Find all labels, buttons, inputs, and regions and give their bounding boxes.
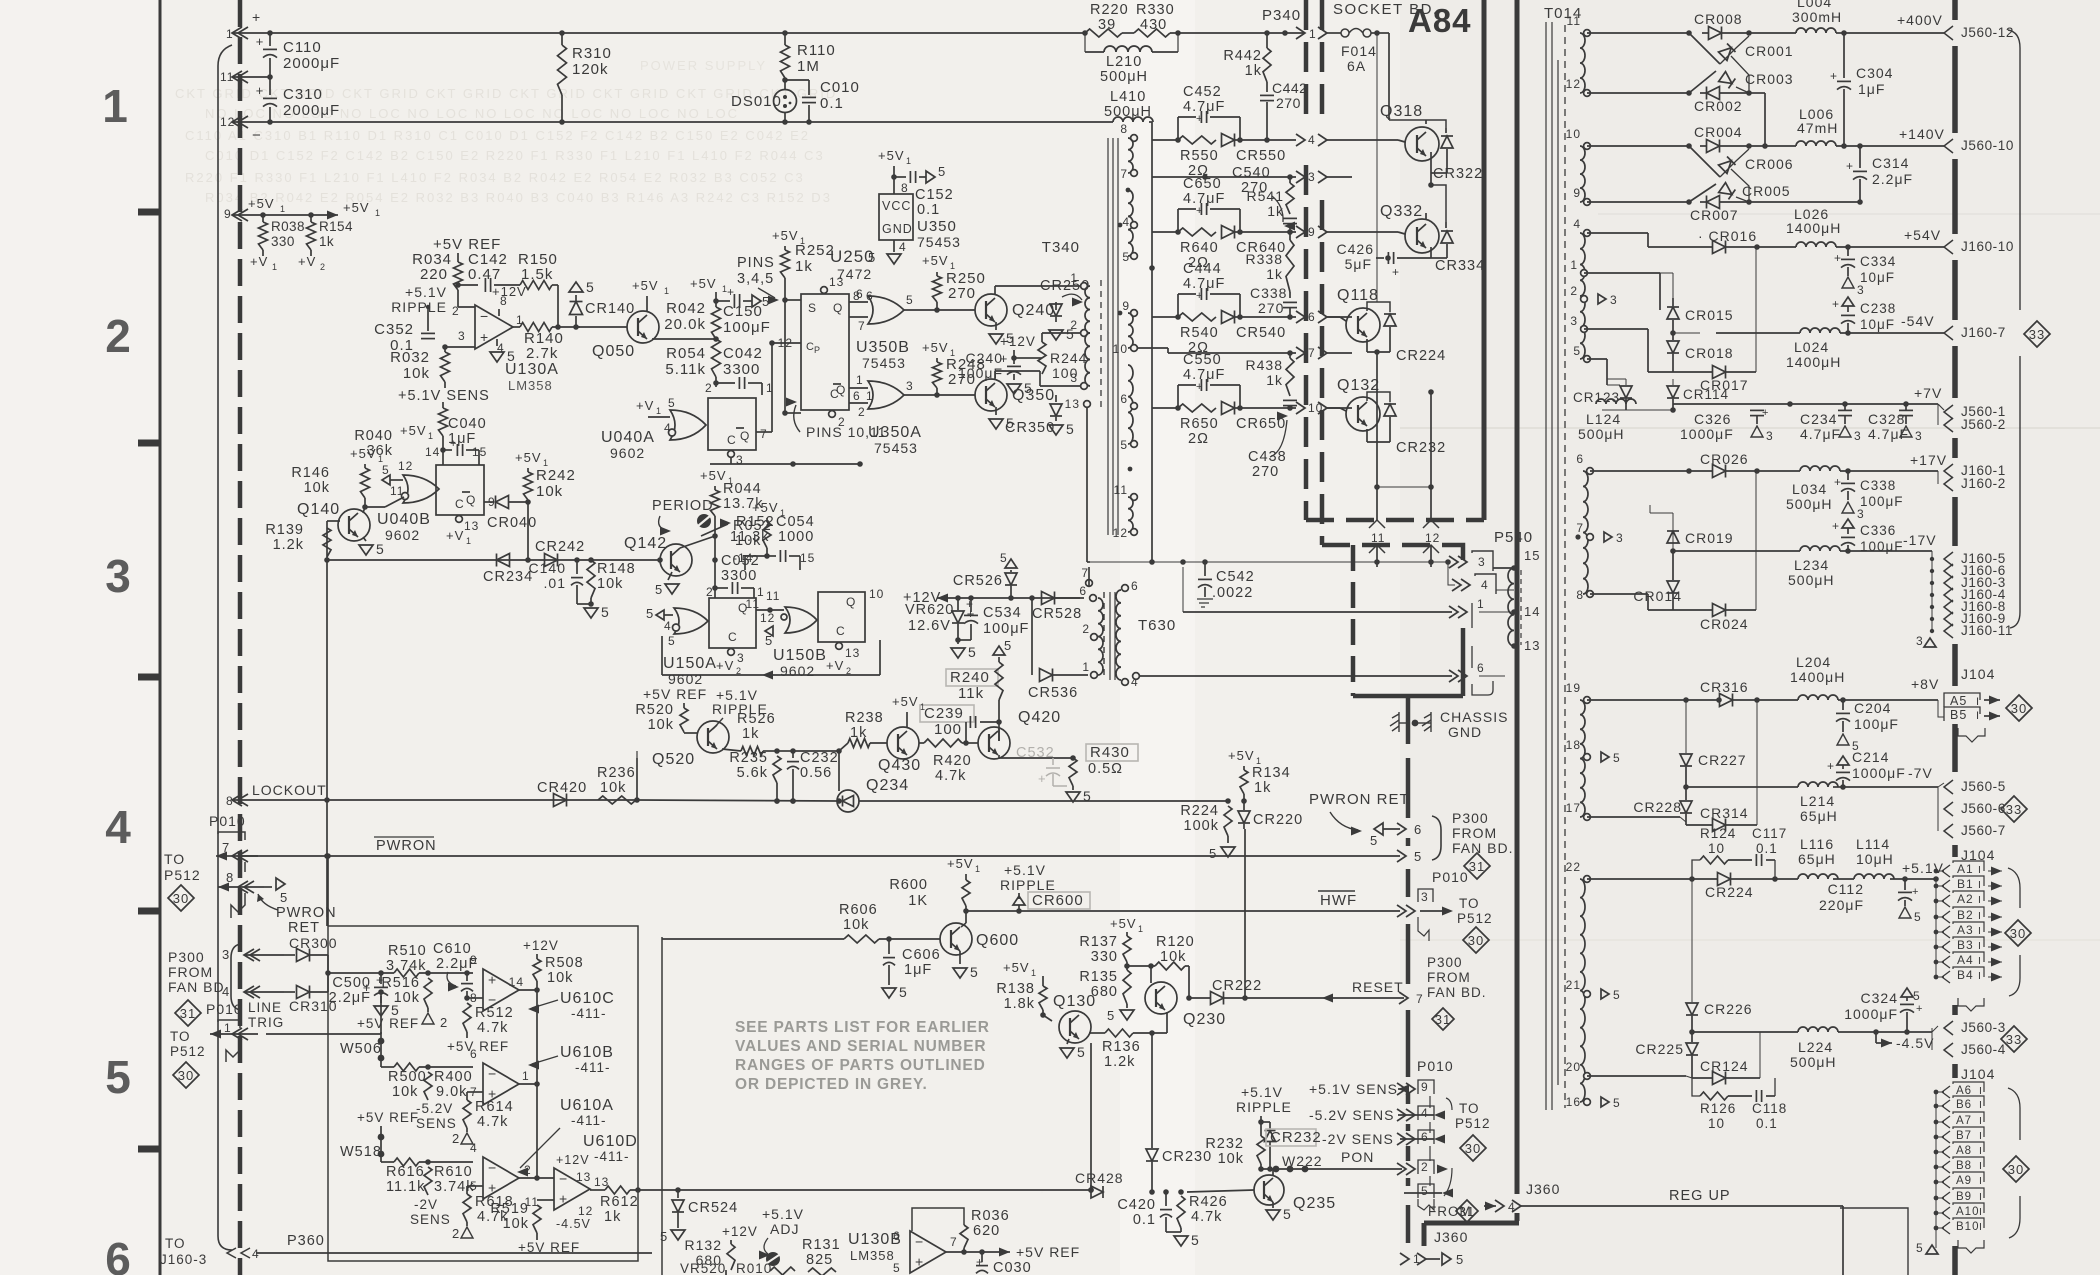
svg-text:4: 4 xyxy=(1421,1106,1429,1120)
connector J160-7 xyxy=(1944,326,1953,340)
svg-text:1k: 1k xyxy=(1245,63,1262,79)
heavy dashed bus vertical pair xyxy=(1304,0,1309,120)
svg-text:J360: J360 xyxy=(1434,1229,1468,1245)
rectifier row -4.5V xyxy=(1692,1031,1798,1033)
svg-text:15: 15 xyxy=(1524,548,1540,563)
svg-text:I: I xyxy=(1978,879,1982,891)
heavy dashed bus right x1955 xyxy=(1952,0,1958,20)
svg-text:C314: C314 xyxy=(1872,155,1909,171)
svg-text:T340: T340 xyxy=(1042,239,1080,256)
svg-text:A7: A7 xyxy=(1956,1115,1972,1127)
svg-text:C338: C338 xyxy=(1250,285,1287,301)
svg-text:ADJ: ADJ xyxy=(770,1221,799,1237)
svg-text:1400μH: 1400μH xyxy=(1790,669,1845,685)
resistor R042 20.0k xyxy=(712,307,721,339)
vertical CR220 to RESET xyxy=(1244,829,1246,998)
diode CR428 xyxy=(1091,1186,1103,1198)
svg-text:+V: +V xyxy=(716,658,734,673)
svg-text:5: 5 xyxy=(1107,1008,1115,1023)
svg-text:C117: C117 xyxy=(1752,826,1787,841)
svg-text:C540: C540 xyxy=(1232,165,1271,181)
svg-text:I: I xyxy=(1979,1160,1983,1172)
T340 secondary left xyxy=(1081,283,1088,290)
svg-text:4: 4 xyxy=(252,1247,260,1261)
connector J160-5 group xyxy=(1944,552,1953,566)
svg-text:-411-: -411- xyxy=(571,1113,607,1128)
svg-text:30: 30 xyxy=(1465,1141,1481,1156)
svg-text:12: 12 xyxy=(1425,531,1440,545)
svg-text:RET: RET xyxy=(288,920,320,936)
svg-text:+V: +V xyxy=(250,254,268,269)
svg-text:10k: 10k xyxy=(392,1084,418,1100)
svg-text:I: I xyxy=(1979,1145,1983,1157)
svg-text:5: 5 xyxy=(382,463,390,477)
svg-text:500μH: 500μH xyxy=(1578,426,1625,442)
svg-text:+5V: +5V xyxy=(772,228,799,243)
diode column CR015 CR018 CR017 xyxy=(1584,272,1660,274)
svg-text:4: 4 xyxy=(1481,578,1489,592)
svg-text:CR242: CR242 xyxy=(535,539,585,555)
svg-text:+V: +V xyxy=(826,658,844,673)
svg-text:14: 14 xyxy=(509,975,524,989)
transistor Q420 xyxy=(978,727,1010,759)
svg-text:C: C xyxy=(455,497,465,511)
svg-text:6: 6 xyxy=(1421,1130,1429,1144)
svg-text:10μF: 10μF xyxy=(1860,270,1895,285)
diode CR242 xyxy=(545,554,558,567)
svg-text:CR540: CR540 xyxy=(1236,325,1286,341)
svg-text:C334: C334 xyxy=(1860,254,1896,269)
svg-text:CR316: CR316 xyxy=(1700,679,1749,695)
svg-text:2000μF: 2000μF xyxy=(283,102,340,119)
diamond 30 J104 mid xyxy=(2005,920,2031,946)
svg-text:+V: +V xyxy=(446,528,464,543)
svg-text:R600: R600 xyxy=(889,877,928,893)
diode CR224 output xyxy=(1718,873,1731,886)
wire REG UP xyxy=(1521,1205,1843,1207)
svg-text:14: 14 xyxy=(425,445,440,459)
svg-text:13: 13 xyxy=(576,1170,591,1184)
svg-text:RIPPLE: RIPPLE xyxy=(1000,877,1056,893)
svg-text:2.2μF: 2.2μF xyxy=(329,990,371,1006)
svg-text:P512: P512 xyxy=(1457,911,1493,926)
svg-text:C110 A1 C310 B1 R110 D1 R31: C110 A1 C310 B1 R110 D1 R310 C1 C010 D1 … xyxy=(185,128,810,143)
svg-text:5: 5 xyxy=(893,1261,901,1275)
svg-text:R244: R244 xyxy=(1050,350,1087,366)
svg-text:CR300: CR300 xyxy=(289,935,338,951)
svg-text:LM358: LM358 xyxy=(850,1248,895,1263)
svg-text:4: 4 xyxy=(1308,133,1316,147)
wire U610A out to U610D xyxy=(537,1177,554,1179)
svg-text:R038: R038 xyxy=(271,219,305,234)
wire U040A out xyxy=(756,431,772,433)
svg-text:1k: 1k xyxy=(742,726,759,742)
svg-text:6A: 6A xyxy=(1347,58,1366,74)
svg-text:J560-6: J560-6 xyxy=(1961,801,2006,816)
svg-text:22: 22 xyxy=(1566,860,1581,874)
svg-text:CR004: CR004 xyxy=(1694,124,1743,140)
svg-text:FAN BD: FAN BD xyxy=(168,979,225,995)
resistor R135 680 xyxy=(1123,970,1131,1004)
svg-text:5: 5 xyxy=(1613,1096,1621,1110)
svg-text:17: 17 xyxy=(1566,801,1581,815)
svg-text:9602: 9602 xyxy=(668,671,703,687)
svg-text:C420: C420 xyxy=(1117,1197,1156,1213)
svg-text:1k: 1k xyxy=(1266,266,1283,282)
svg-text:330: 330 xyxy=(271,234,295,249)
svg-text:R146: R146 xyxy=(291,465,330,481)
svg-text:5: 5 xyxy=(1122,250,1130,264)
svg-text:Q142: Q142 xyxy=(624,535,667,552)
svg-text:DS010: DS010 xyxy=(731,93,782,110)
svg-text:J560-3: J560-3 xyxy=(1961,1020,2006,1035)
svg-text:CR334: CR334 xyxy=(1435,258,1485,274)
svg-text:L124: L124 xyxy=(1586,411,1621,427)
svg-text:+7V: +7V xyxy=(1914,385,1942,401)
svg-text:1k: 1k xyxy=(1254,780,1271,796)
svg-text:FROM: FROM xyxy=(168,964,213,980)
svg-text:R042: R042 xyxy=(666,300,706,317)
svg-text:+5.1V: +5.1V xyxy=(1004,862,1046,878)
resistor R139 1.2k xyxy=(323,528,331,557)
connector J560-1 J560-2 xyxy=(1906,403,1938,405)
transistor Q050 xyxy=(627,311,659,343)
svg-text:+5V: +5V xyxy=(947,856,974,871)
T630 pin7 hook xyxy=(1088,567,1090,587)
wire Q420 emitter R430 xyxy=(998,755,1000,758)
svg-text:J560-12: J560-12 xyxy=(1961,25,2014,40)
svg-text:100: 100 xyxy=(934,721,962,738)
resistor R132 680 xyxy=(727,1244,735,1270)
svg-text:+5V: +5V xyxy=(690,276,717,291)
inductor L116 65uH xyxy=(1798,874,1838,879)
diode CR232 boxed xyxy=(1261,1121,1270,1123)
svg-text:A1: A1 xyxy=(1957,862,1974,876)
svg-text:C542: C542 xyxy=(1216,569,1255,585)
svg-text:1000: 1000 xyxy=(778,529,814,545)
svg-text:R220: R220 xyxy=(1090,2,1129,18)
svg-text:B7: B7 xyxy=(1956,1130,1972,1142)
cross diodes CR001 CR003 xyxy=(1689,33,1720,64)
svg-text:R154: R154 xyxy=(319,219,353,234)
svg-text:1: 1 xyxy=(906,156,912,166)
snubber row pin3 xyxy=(1152,176,1205,178)
svg-text:U040A: U040A xyxy=(601,429,655,446)
svg-text:5: 5 xyxy=(655,582,663,597)
svg-text:11k: 11k xyxy=(958,685,984,702)
svg-text:I: I xyxy=(1979,1191,1983,1203)
svg-text:C040: C040 xyxy=(448,416,487,432)
svg-text:3: 3 xyxy=(1308,170,1316,184)
svg-text:CR008: CR008 xyxy=(1694,11,1743,27)
svg-text:B2: B2 xyxy=(1957,908,1974,922)
svg-text:Q350: Q350 xyxy=(1012,387,1055,404)
winding between P540 pins xyxy=(1508,568,1514,646)
svg-text:3: 3 xyxy=(458,329,466,343)
capacitor C310 2000uF xyxy=(269,77,271,95)
svg-text:31: 31 xyxy=(1459,1204,1475,1219)
svg-text:A9: A9 xyxy=(1956,1175,1972,1187)
LINE TRIG link xyxy=(380,992,382,1034)
svg-text:R512: R512 xyxy=(475,1005,514,1021)
transistor Q430 xyxy=(887,727,919,759)
svg-text:5.11k: 5.11k xyxy=(665,361,706,378)
svg-text:5: 5 xyxy=(1191,1232,1200,1248)
svg-text:-4.5V: -4.5V xyxy=(1896,1035,1934,1051)
svg-text:B4: B4 xyxy=(1957,968,1974,982)
wire Q050 collector +5V1 xyxy=(646,296,648,311)
svg-text:LOCKOUT: LOCKOUT xyxy=(252,782,327,798)
svg-text:1: 1 xyxy=(516,313,524,327)
svg-text:30: 30 xyxy=(1468,933,1484,948)
svg-text:+5V REF: +5V REF xyxy=(643,686,707,702)
svg-text:CR314: CR314 xyxy=(1700,805,1749,821)
svg-text:20.0k: 20.0k xyxy=(664,316,706,333)
svg-text:7: 7 xyxy=(1308,346,1316,360)
diode CR524 xyxy=(677,1190,679,1198)
gate U350B xyxy=(868,296,904,324)
svg-text:11: 11 xyxy=(1567,14,1581,28)
paper crease lines xyxy=(1400,427,2100,429)
svg-text:3: 3 xyxy=(1610,293,1618,307)
svg-text:CR140: CR140 xyxy=(585,301,635,317)
svg-text:13: 13 xyxy=(829,275,844,289)
svg-text:13: 13 xyxy=(1065,397,1080,411)
capacitor C152 0.1 xyxy=(894,176,906,178)
P010 sense squiggle xyxy=(1418,1199,1434,1210)
svg-text:5: 5 xyxy=(868,250,876,265)
svg-text:S: S xyxy=(808,301,817,315)
svg-text:R232: R232 xyxy=(1205,1136,1244,1152)
P540 thick corner xyxy=(1452,545,1463,560)
svg-text:6: 6 xyxy=(470,1047,478,1061)
wire Q142 collector xyxy=(714,560,716,588)
svg-text:6: 6 xyxy=(1414,822,1422,837)
Q140 collector to gate xyxy=(363,507,365,513)
svg-text:10: 10 xyxy=(869,587,884,601)
resistor R400 9.0k xyxy=(424,1072,432,1100)
capacitor C334 10uF xyxy=(1845,244,1851,250)
svg-text:7: 7 xyxy=(950,1235,958,1249)
svg-text:Q235: Q235 xyxy=(1293,1195,1336,1212)
svg-text:5: 5 xyxy=(1077,1044,1086,1060)
svg-text:CR232: CR232 xyxy=(1396,440,1446,456)
svg-text:R500: R500 xyxy=(388,1069,427,1085)
svg-text:J560-5: J560-5 xyxy=(1961,779,2006,794)
svg-text:6: 6 xyxy=(856,287,864,301)
svg-text:4.7μF: 4.7μF xyxy=(1183,367,1225,383)
diode CR350 xyxy=(1055,395,1057,402)
svg-text:-17V: -17V xyxy=(1903,532,1937,548)
svg-text:3: 3 xyxy=(1854,429,1862,443)
row tick marks xyxy=(138,209,160,216)
svg-text:CR224: CR224 xyxy=(1396,348,1446,364)
svg-text:R550: R550 xyxy=(1180,148,1219,164)
bracket J104 mid xyxy=(2008,868,2020,908)
svg-text:P540: P540 xyxy=(1494,529,1533,546)
svg-text:R138: R138 xyxy=(996,981,1035,997)
svg-text:VR520: VR520 xyxy=(680,1261,726,1275)
inductor L210 500uH xyxy=(1084,33,1086,52)
resistor R610 3.74k xyxy=(424,1167,432,1195)
svg-text:14: 14 xyxy=(1524,604,1540,619)
svg-text:CR225: CR225 xyxy=(1635,1041,1684,1057)
heavy bus corner bottom xyxy=(1515,1213,1520,1221)
svg-text:CR006: CR006 xyxy=(1745,156,1794,172)
svg-text:C426: C426 xyxy=(1337,241,1374,257)
svg-text:CR228: CR228 xyxy=(1633,799,1682,815)
svg-text:L214: L214 xyxy=(1800,793,1835,809)
svg-text:C326: C326 xyxy=(1694,411,1731,427)
heavy dashed bus horizontals xyxy=(1306,518,1484,523)
svg-text:9602: 9602 xyxy=(610,445,645,461)
svg-text:+140V: +140V xyxy=(1899,126,1945,142)
svg-text:5: 5 xyxy=(1613,988,1621,1002)
diode CR310 xyxy=(297,986,310,999)
svg-text:10k: 10k xyxy=(503,1216,529,1232)
resistor R426 4.7k xyxy=(1178,1189,1184,1195)
resistor R519 10k xyxy=(537,1199,542,1201)
svg-text:U150B: U150B xyxy=(773,647,827,664)
svg-text:5: 5 xyxy=(1024,380,1033,396)
svg-text:CR234: CR234 xyxy=(483,569,533,585)
resistor R224 100k xyxy=(1224,806,1232,836)
svg-text:3: 3 xyxy=(1766,429,1774,443)
svg-text:3.74k: 3.74k xyxy=(386,958,426,974)
bracket top right xyxy=(2008,30,2020,310)
svg-text:5: 5 xyxy=(1414,849,1422,864)
svg-text:−: − xyxy=(488,1160,496,1176)
svg-text:5: 5 xyxy=(376,541,385,557)
svg-text:Q: Q xyxy=(466,493,476,507)
svg-text:5: 5 xyxy=(1456,1252,1464,1267)
svg-text:11: 11 xyxy=(766,589,780,603)
svg-text:10: 10 xyxy=(1708,841,1725,856)
svg-text:R132: R132 xyxy=(685,1237,722,1253)
resistor R616 11.1k xyxy=(381,1161,394,1163)
svg-text:P300: P300 xyxy=(1452,810,1489,826)
svg-text:C: C xyxy=(836,624,846,638)
svg-text:Q332: Q332 xyxy=(1380,203,1423,220)
svg-text:0.1: 0.1 xyxy=(1756,841,1778,856)
Q350 emitter gnd xyxy=(995,407,997,415)
rail verticals to bus chevrons xyxy=(1376,352,1378,520)
svg-text:5: 5 xyxy=(668,634,676,648)
svg-text:31: 31 xyxy=(180,1006,196,1021)
flip-flop U040B body xyxy=(436,465,484,515)
svg-text:47mH: 47mH xyxy=(1797,120,1838,136)
svg-text:R238: R238 xyxy=(845,710,884,726)
svg-text:R252: R252 xyxy=(795,242,835,259)
svg-text:5μF: 5μF xyxy=(1345,256,1372,272)
wire C052 to U150A xyxy=(714,588,716,598)
svg-text:1: 1 xyxy=(428,431,434,441)
diamond 30 J104 A5 xyxy=(2006,695,2032,721)
pot R052 10k arrow xyxy=(701,524,728,536)
svg-text:7: 7 xyxy=(1576,521,1584,535)
svg-text:4.7k: 4.7k xyxy=(477,1020,508,1036)
gate U150A xyxy=(674,608,708,634)
svg-text:1: 1 xyxy=(272,262,278,272)
svg-text:CR550: CR550 xyxy=(1236,148,1286,164)
connector J560-12 xyxy=(1844,32,1944,34)
resistor R235 5.6k xyxy=(773,756,781,783)
svg-text:+12V: +12V xyxy=(523,938,559,953)
svg-text:R510: R510 xyxy=(388,943,427,959)
svg-text:270: 270 xyxy=(948,285,976,302)
svg-text:825: 825 xyxy=(806,1252,833,1268)
svg-text:5.6k: 5.6k xyxy=(737,765,768,781)
svg-text:12: 12 xyxy=(398,459,413,473)
svg-text:9: 9 xyxy=(1421,1080,1429,1094)
svg-text:13: 13 xyxy=(845,646,860,660)
snubber row pin9 R640 CR640 C650 xyxy=(1152,231,1178,233)
svg-text:75453: 75453 xyxy=(874,440,918,456)
svg-text:-5.2V SENS: -5.2V SENS xyxy=(1309,1107,1394,1123)
svg-text:4.7μF: 4.7μF xyxy=(1183,276,1225,292)
svg-text:L224: L224 xyxy=(1798,1039,1833,1055)
svg-text:13: 13 xyxy=(464,519,479,533)
svg-text:R526: R526 xyxy=(737,711,776,727)
svg-text:620: 620 xyxy=(973,1223,1000,1239)
svg-text:1: 1 xyxy=(224,1021,232,1035)
svg-text:+5V: +5V xyxy=(922,340,949,355)
rectifier row 9 xyxy=(1587,201,1689,203)
svg-text:2: 2 xyxy=(1082,622,1090,636)
svg-text:1μF: 1μF xyxy=(904,962,932,978)
svg-text:C152: C152 xyxy=(915,187,954,203)
svg-text:CR015: CR015 xyxy=(1685,307,1734,323)
svg-text:R034 B2 R042 E2 R054 E2 R03: R034 B2 R042 E2 R054 E2 R032 B3 R040 B3 … xyxy=(205,190,832,205)
svg-text:RANGES OF PARTS OUTLINED: RANGES OF PARTS OUTLINED xyxy=(735,1057,986,1074)
svg-text:R338: R338 xyxy=(1246,251,1283,267)
svg-text:1.2k: 1.2k xyxy=(273,537,304,553)
wire PON xyxy=(1261,1168,1402,1170)
lamp DS010 xyxy=(784,78,786,90)
resistor R236 10k xyxy=(598,796,636,804)
svg-text:+5V REF: +5V REF xyxy=(357,1110,419,1125)
svg-text:12: 12 xyxy=(578,1204,593,1218)
svg-text:P010: P010 xyxy=(209,813,246,829)
svg-text:+: + xyxy=(1827,759,1835,773)
svg-text:W518: W518 xyxy=(340,1144,382,1160)
resistor R032 10k xyxy=(442,344,448,350)
wire R236 to Q234 and beyond xyxy=(637,800,837,801)
heavy solid bus verticals xyxy=(1482,0,1487,520)
svg-text:+5V: +5V xyxy=(892,694,919,709)
svg-text:10k: 10k xyxy=(547,970,573,986)
gate U350A xyxy=(868,381,904,409)
svg-text:33: 33 xyxy=(2029,327,2045,342)
svg-text:C452: C452 xyxy=(1183,84,1222,100)
svg-text:C328: C328 xyxy=(1868,411,1905,427)
svg-text:3: 3 xyxy=(105,550,131,602)
svg-text:VR620: VR620 xyxy=(905,602,954,618)
ground pin4 U130A xyxy=(490,352,504,362)
svg-text:W506: W506 xyxy=(340,1041,382,1057)
svg-text:3: 3 xyxy=(222,947,230,962)
svg-text:1: 1 xyxy=(1138,924,1144,934)
svg-text:4: 4 xyxy=(470,1141,478,1155)
svg-text:L024: L024 xyxy=(1794,339,1829,355)
svg-text:R520: R520 xyxy=(635,702,674,718)
svg-text:P300: P300 xyxy=(1427,955,1463,970)
svg-text:5: 5 xyxy=(1613,751,1621,765)
capacitor C238 10uF xyxy=(1842,297,1854,306)
op-amp U130B xyxy=(910,1231,946,1273)
svg-text:CR019: CR019 xyxy=(1685,530,1734,546)
svg-text:Q: Q xyxy=(836,383,846,397)
